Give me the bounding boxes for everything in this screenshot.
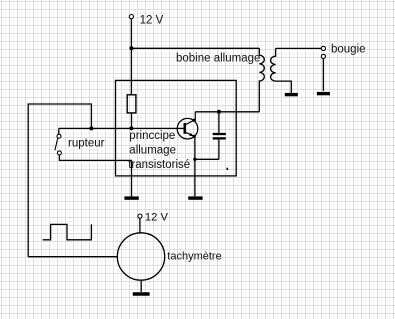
svg-text:transistorisé: transistorisé	[128, 159, 190, 171]
switch contact bottom	[57, 151, 61, 155]
wire resistor bottom to base line	[131, 113, 133, 128]
svg-text:tachymètre: tachymètre	[167, 251, 221, 263]
terminal +12V tachometer	[138, 214, 142, 218]
terminal +12V top	[129, 15, 133, 19]
transistor collector diagonal	[185, 112, 195, 125]
switch contact top	[57, 134, 61, 138]
inductor L1 primary of bobine	[259, 48, 264, 112]
svg-text:bobine allumage: bobine allumage	[176, 52, 260, 64]
wire base line rupteur to transistor	[59, 127, 185, 129]
wire secondary top to bougie	[276, 47, 321, 49]
emitter arrowhead	[189, 133, 193, 136]
wire 12V to primary coil top	[131, 47, 259, 49]
switch rupteur top lead	[58, 128, 60, 134]
ground under bougie	[317, 92, 330, 95]
stray dot mark	[227, 168, 229, 170]
node collector on circle	[193, 119, 196, 122]
transistor emitter diagonal	[185, 132, 194, 136]
wire tach 12V down	[139, 218, 141, 233]
resistor R1	[127, 95, 136, 113]
node junction capacitor top	[217, 110, 221, 114]
svg-text:rupteur: rupteur	[68, 137, 105, 149]
wire tachometer to ground	[140, 280, 142, 292]
svg-text:allumage: allumage	[129, 144, 176, 156]
switch blade	[55, 138, 58, 150]
transistor Q1 body	[177, 118, 198, 139]
wire rupteur bottom to ground column	[59, 155, 131, 196]
inductor L2 secondary of bobine	[271, 48, 292, 93]
node junction rupteur column	[89, 126, 93, 130]
transistor base bar	[184, 123, 187, 134]
square wave signal symbol	[43, 224, 92, 239]
svg-text:12 V: 12 V	[140, 14, 164, 26]
node emitter/capacitor bottom	[193, 158, 196, 161]
ground under rupteur column	[124, 196, 138, 199]
svg-text:bougie: bougie	[331, 44, 366, 56]
ground under tachometer	[133, 292, 150, 296]
tachometer body	[117, 233, 164, 280]
node emitter on circle	[193, 135, 196, 138]
spark gap terminal lower (bougie)	[321, 54, 325, 58]
wire emitter down to ground	[194, 136, 196, 196]
capacitor C1 plate top	[213, 133, 226, 135]
node junction 12V/bobine	[129, 46, 133, 50]
capacitor C1 top lead	[218, 112, 220, 133]
node junction resistor bottom	[129, 126, 133, 130]
ground under emitter	[188, 196, 202, 199]
svg-text:12 V: 12 V	[145, 211, 169, 223]
ground under secondary	[285, 93, 298, 96]
wire 12V vertical down to resistor	[130, 19, 132, 95]
svg-text:princcipe: princcipe	[129, 130, 175, 142]
wire emitter to capacitor bottom	[195, 158, 219, 160]
wire feed to tachometer	[28, 256, 117, 258]
wire bougie to ground	[322, 59, 324, 91]
module box principe allumage transistorise	[116, 80, 237, 175]
capacitor C1 bottom lead	[218, 140, 220, 160]
wire coil bottom to collector	[195, 111, 259, 113]
spark gap terminal upper (bougie)	[321, 46, 325, 50]
capacitor C1 plate bottom	[213, 137, 226, 139]
wire upper feed loop	[28, 104, 91, 257]
